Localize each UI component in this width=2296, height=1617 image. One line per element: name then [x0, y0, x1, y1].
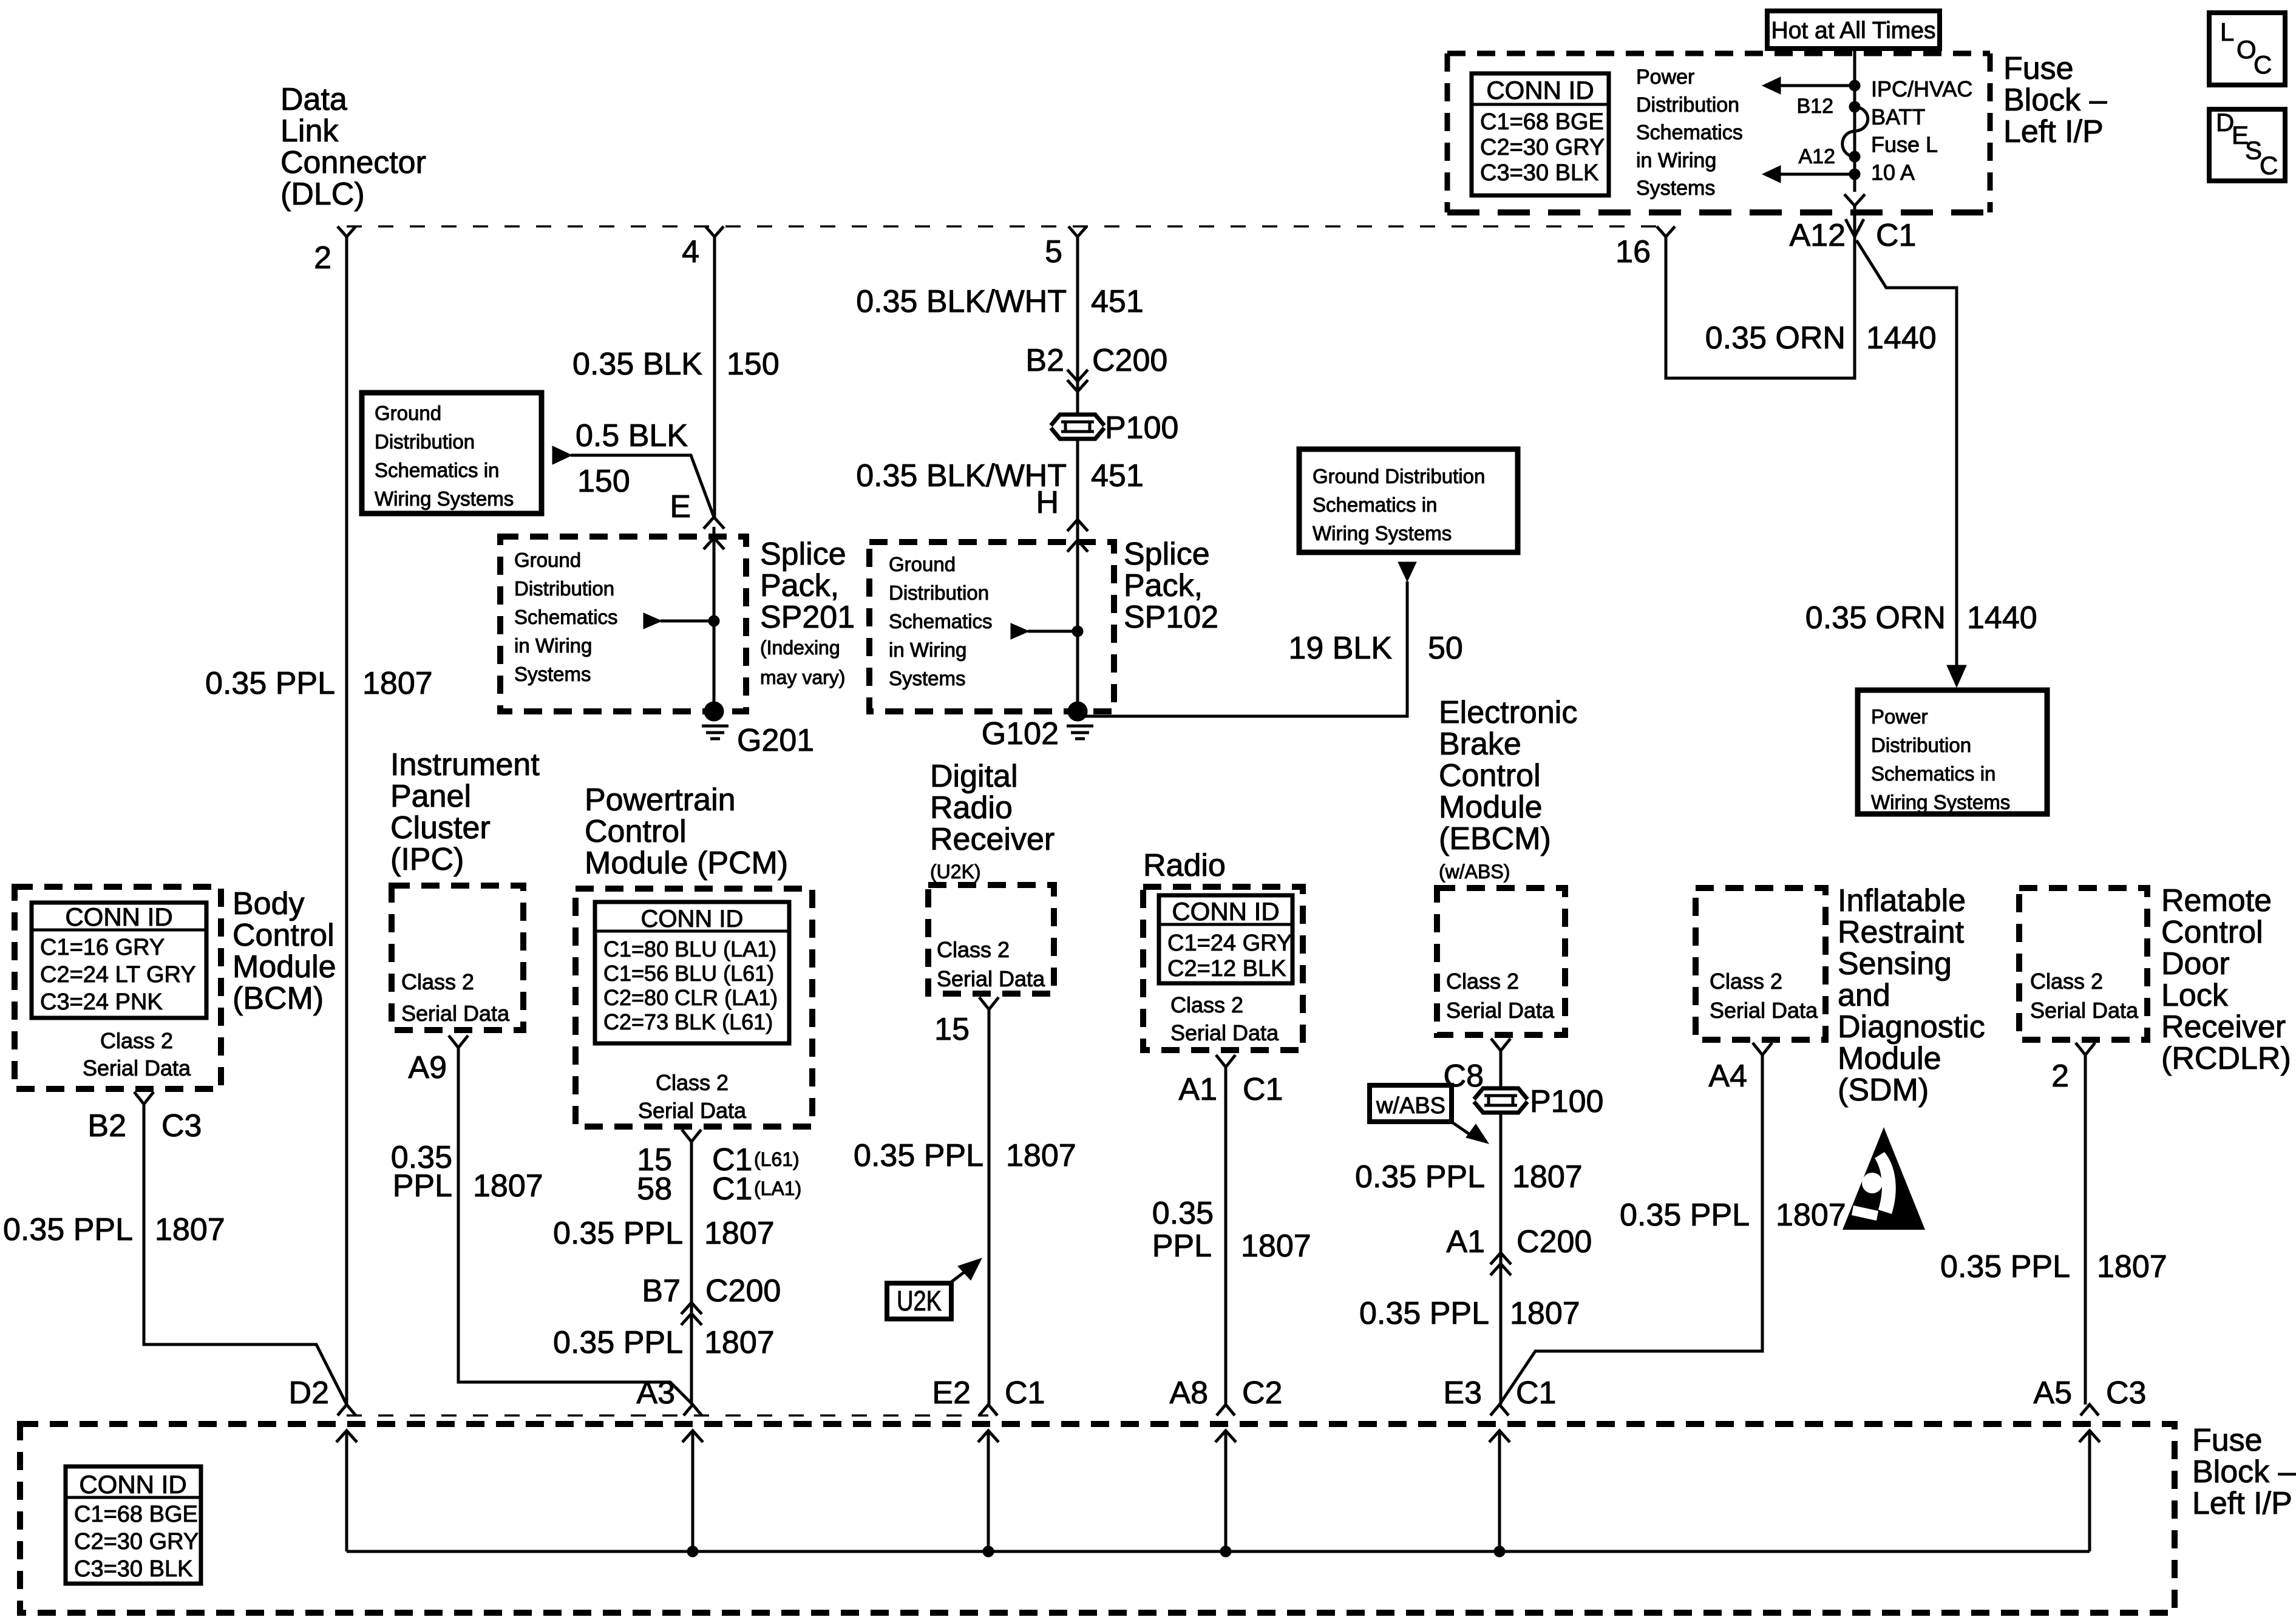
svg-text:G201: G201: [737, 723, 814, 758]
svg-text:Connector: Connector: [280, 145, 426, 180]
svg-text:1807: 1807: [2097, 1249, 2167, 1284]
wire SDM to fuse block E3 (0.35 PPL 1807): [1500, 1055, 1762, 1405]
fuse block internal bus wire: [347, 1550, 2090, 1553]
svg-text:SP102: SP102: [1124, 600, 1218, 635]
svg-text:IPC/HVAC: IPC/HVAC: [1871, 76, 1972, 101]
svg-text:Control: Control: [2161, 915, 2263, 950]
svg-text:Splice: Splice: [1124, 537, 1210, 572]
svg-text:C2=73 BLK (L61): C2=73 BLK (L61): [603, 1009, 773, 1034]
connector A3 (fuse block): [684, 1405, 702, 1415]
ground G102: [1068, 702, 1087, 721]
svg-text:0.35 PPL: 0.35 PPL: [205, 666, 335, 701]
svg-text:Schematics: Schematics: [1636, 121, 1743, 144]
svg-text:CONN ID: CONN ID: [79, 1470, 186, 1499]
svg-text:0.35 ORN: 0.35 ORN: [1705, 320, 1846, 356]
svg-text:CONN ID: CONN ID: [641, 906, 744, 932]
svg-text:451: 451: [1091, 458, 1144, 493]
svg-text:Class 2: Class 2: [937, 937, 1010, 962]
connector pins 15/58 C1 (PCM): [682, 1130, 701, 1142]
module BCM box: [15, 887, 221, 1089]
svg-text:1807: 1807: [704, 1325, 775, 1360]
svg-text:(EBCM): (EBCM): [1439, 821, 1551, 856]
svg-text:1807: 1807: [704, 1216, 775, 1251]
svg-text:Systems: Systems: [514, 663, 591, 685]
svg-text:1807: 1807: [155, 1212, 225, 1247]
open arrow at fuse block exit: [1844, 194, 1865, 206]
svg-text:B12: B12: [1797, 95, 1834, 118]
svg-text:Ground: Ground: [375, 402, 441, 424]
wire BCM to fuse block D2 (0.35 PPL 1807): [144, 1104, 347, 1405]
svg-text:Class 2: Class 2: [2030, 969, 2103, 994]
svg-text:Systems: Systems: [1636, 177, 1715, 200]
svg-text:15: 15: [934, 1012, 970, 1047]
svg-text:0.35 BLK/WHT: 0.35 BLK/WHT: [856, 284, 1067, 319]
svg-text:in Wiring: in Wiring: [1636, 149, 1716, 172]
svg-text:w/ABS: w/ABS: [1376, 1093, 1445, 1119]
svg-text:E3: E3: [1443, 1375, 1482, 1411]
svg-text:may vary): may vary): [760, 666, 845, 688]
svg-text:A1: A1: [1446, 1224, 1485, 1259]
svg-text:A9: A9: [408, 1050, 447, 1085]
svg-text:1807: 1807: [1510, 1296, 1580, 1331]
ground G201: [704, 702, 724, 721]
svg-text:A1: A1: [1178, 1072, 1217, 1107]
svg-text:Schematics: Schematics: [889, 610, 993, 632]
SRS warning triangle icon: [1843, 1127, 1925, 1230]
svg-text:Power: Power: [1636, 66, 1694, 89]
svg-text:C1: C1: [712, 1171, 752, 1207]
svg-text:C2=12 BLK: C2=12 BLK: [1167, 956, 1286, 981]
svg-text:Distribution: Distribution: [514, 577, 614, 600]
svg-text:Distribution: Distribution: [1871, 734, 1971, 756]
svg-text:0.35 PPL: 0.35 PPL: [1359, 1296, 1489, 1331]
svg-text:16: 16: [1615, 234, 1651, 269]
wire 0.35 ORN 1440 branch to power distribution: [1856, 240, 1957, 679]
svg-text:Remote: Remote: [2161, 883, 2272, 918]
svg-text:0.35 PPL: 0.35 PPL: [1355, 1159, 1485, 1195]
CONN ID table (BCM): [32, 903, 206, 1018]
svg-text:Powertrain: Powertrain: [585, 782, 736, 818]
svg-text:C3: C3: [161, 1108, 202, 1144]
svg-text:H: H: [1036, 485, 1059, 520]
svg-text:Class 2: Class 2: [1710, 969, 1782, 994]
svg-text:4: 4: [682, 234, 699, 269]
svg-text:1807: 1807: [473, 1168, 543, 1204]
svg-text:Systems: Systems: [889, 667, 966, 690]
svg-text:150: 150: [577, 464, 630, 499]
svg-text:L: L: [2220, 18, 2234, 46]
DLC pin 5: [1068, 226, 1087, 237]
U2K callout box and arrow: [887, 1283, 951, 1319]
svg-text:P100: P100: [1105, 410, 1178, 446]
svg-text:B2: B2: [1025, 343, 1064, 378]
svg-text:C: C: [2254, 50, 2272, 79]
svg-text:Fuse L: Fuse L: [1871, 132, 1938, 157]
module IPC box: [392, 886, 523, 1030]
fuse block connector thin dashed line: [347, 1414, 988, 1417]
fuse L symbol: [1843, 107, 1868, 157]
svg-text:U2K: U2K: [897, 1285, 942, 1317]
svg-text:58: 58: [637, 1171, 672, 1207]
connector pin A9 (IPC): [449, 1036, 468, 1048]
svg-text:C1: C1: [1516, 1375, 1556, 1411]
connector A8 C2 (fuse block): [1217, 1405, 1235, 1415]
svg-text:Wiring Systems: Wiring Systems: [375, 487, 514, 510]
svg-text:Radio: Radio: [930, 790, 1013, 825]
svg-text:0.35 BLK: 0.35 BLK: [572, 347, 702, 382]
svg-text:Serial Data: Serial Data: [1170, 1020, 1279, 1045]
arrow from ground distribution box: [552, 446, 572, 464]
CONN ID table (Radio): [1159, 895, 1292, 983]
svg-text:CONN ID: CONN ID: [1172, 897, 1279, 926]
wire 0.35 ORN 1440 from fuse A12 to DLC pin 16: [1666, 237, 1855, 378]
svg-text:and: and: [1838, 978, 1890, 1013]
svg-text:Schematics in: Schematics in: [1871, 762, 1995, 785]
svg-text:1440: 1440: [1866, 320, 1937, 356]
Hot at All Times box: [1767, 11, 1940, 49]
wire inside SP201: [713, 527, 716, 711]
inline connector P100: [1050, 415, 1106, 439]
svg-text:Diagnostic: Diagnostic: [1838, 1009, 1985, 1045]
CONN ID table (fuse block top): [1472, 73, 1609, 195]
svg-text:Module: Module: [1439, 790, 1543, 825]
svg-text:C1=24 GRY: C1=24 GRY: [1167, 931, 1292, 956]
svg-text:Restraint: Restraint: [1838, 915, 1965, 950]
arrow A12: [1776, 173, 1855, 176]
svg-text:(L61): (L61): [754, 1148, 800, 1170]
svg-text:C200: C200: [1092, 343, 1167, 378]
svg-text:(LA1): (LA1): [754, 1178, 801, 1199]
svg-text:C2=30 GRY: C2=30 GRY: [74, 1529, 199, 1554]
svg-text:Brake: Brake: [1439, 727, 1521, 762]
svg-text:Block –: Block –: [2003, 83, 2107, 118]
svg-text:Serial Data: Serial Data: [937, 966, 1045, 991]
svg-text:Instrument: Instrument: [390, 747, 540, 782]
svg-text:(BCM): (BCM): [233, 981, 324, 1016]
svg-text:C1: C1: [1243, 1072, 1283, 1107]
ground distribution reference box (upper left): [362, 393, 542, 514]
svg-text:Left I/P: Left I/P: [2192, 1486, 2292, 1521]
svg-text:C2=24 LT GRY: C2=24 LT GRY: [40, 962, 196, 988]
svg-text:Block –: Block –: [2192, 1454, 2296, 1490]
w/ABS callout box and arrow: [1370, 1085, 1452, 1122]
svg-text:(Indexing: (Indexing: [760, 637, 840, 659]
module Digital Radio Receiver box: [928, 885, 1054, 994]
svg-text:Body: Body: [233, 886, 305, 921]
svg-text:Ground: Ground: [514, 549, 581, 571]
connector A5 C3 (fuse block): [2080, 1405, 2099, 1415]
module Radio box: [1143, 887, 1303, 1050]
wire DLC pin 4 to splice SP201 (0.35 BLK 150): [713, 237, 716, 517]
svg-text:E2: E2: [932, 1375, 971, 1411]
fuse block top dashed box: [1447, 53, 1990, 212]
svg-text:2: 2: [314, 240, 331, 276]
svg-text:Schematics in: Schematics in: [1313, 493, 1437, 516]
wire 0.5 BLK 150 to node E: [571, 455, 714, 517]
svg-text:in Wiring: in Wiring: [514, 634, 592, 657]
svg-text:Serial Data: Serial Data: [1446, 998, 1555, 1023]
connector DLC dashed pin line: [347, 225, 1664, 228]
svg-text:C200: C200: [705, 1273, 781, 1309]
svg-text:Sensing: Sensing: [1838, 946, 1952, 981]
svg-text:0.35 PPL: 0.35 PPL: [854, 1138, 983, 1173]
svg-text:Class 2: Class 2: [1170, 992, 1243, 1017]
svg-text:Link: Link: [280, 114, 339, 149]
arrow inside SP201 to splice point: [644, 613, 662, 629]
wire PCM to fuse block A3 (0.35 PPL 1807): [690, 1142, 693, 1405]
svg-text:Radio: Radio: [1143, 848, 1226, 883]
svg-text:Data: Data: [280, 82, 347, 117]
connector pin 2 (RCDLR): [2076, 1043, 2095, 1055]
wire DRR to fuse block E2 (0.35 PPL 1807): [988, 1009, 991, 1405]
svg-text:Control: Control: [1439, 758, 1541, 793]
connector pins A1 C1 (Radio): [1216, 1055, 1235, 1067]
ground distribution reference box (center): [1299, 449, 1518, 552]
svg-text:Digital: Digital: [930, 759, 1018, 794]
svg-text:Lock: Lock: [2161, 978, 2229, 1013]
svg-text:A4: A4: [1708, 1059, 1747, 1094]
svg-text:Control: Control: [233, 918, 335, 953]
svg-text:Class 2: Class 2: [100, 1028, 173, 1053]
svg-text:Distribution: Distribution: [375, 430, 475, 453]
svg-text:1807: 1807: [1241, 1229, 1311, 1264]
svg-text:Module: Module: [1838, 1041, 1941, 1076]
wire DLC pin 5 to splice SP102 (0.35 BLK/WHT 451): [1076, 237, 1079, 711]
svg-text:Distribution: Distribution: [889, 581, 989, 604]
DESC box: [2209, 109, 2285, 181]
svg-text:0.5 BLK: 0.5 BLK: [576, 418, 688, 453]
fuse block feed wire: [1853, 49, 1856, 192]
svg-text:Receiver: Receiver: [930, 822, 1055, 857]
connector D2 (fuse block): [338, 1405, 356, 1415]
svg-text:Ground Distribution: Ground Distribution: [1313, 465, 1485, 487]
DLC pin 16: [1657, 226, 1675, 237]
svg-text:A5: A5: [2033, 1375, 2072, 1411]
connector chevrons at node E: [704, 517, 724, 529]
svg-text:Fuse: Fuse: [2192, 1423, 2263, 1458]
svg-text:A3: A3: [636, 1375, 675, 1411]
svg-text:1807: 1807: [362, 666, 433, 701]
CONN ID table (fuse block bottom): [66, 1466, 201, 1584]
splice pack SP201 box: [500, 537, 746, 711]
svg-text:Pack,: Pack,: [1124, 568, 1203, 603]
svg-text:1807: 1807: [1006, 1138, 1076, 1173]
svg-text:C1=68 BGE: C1=68 BGE: [74, 1502, 198, 1527]
DLC pin 2: [338, 226, 356, 237]
svg-text:Power: Power: [1871, 705, 1928, 728]
svg-text:1440: 1440: [1967, 600, 2037, 636]
svg-text:C: C: [2260, 151, 2278, 180]
svg-text:0.35 ORN: 0.35 ORN: [1805, 600, 1946, 636]
fuse block bottom dashed box: [20, 1424, 2175, 1613]
svg-text:Control: Control: [585, 814, 687, 849]
svg-text:C200: C200: [1517, 1224, 1592, 1259]
connector pin C8 (EBCM): [1491, 1039, 1510, 1051]
svg-text:Serial Data: Serial Data: [401, 1001, 510, 1026]
connector pins B2 C3 (BCM): [134, 1092, 154, 1104]
svg-text:A8: A8: [1169, 1375, 1208, 1411]
svg-text:G102: G102: [982, 716, 1059, 751]
wire DLC pin 2 to fuse block D2 (0.35 PPL 1807): [345, 237, 348, 1405]
connector pin 15 (DRR): [979, 997, 999, 1009]
svg-text:Electronic: Electronic: [1439, 695, 1577, 730]
svg-text:P100: P100: [1530, 1084, 1603, 1119]
svg-text:C1: C1: [1005, 1375, 1045, 1411]
svg-text:C3=30 BLK: C3=30 BLK: [1480, 160, 1598, 186]
svg-text:Ground: Ground: [889, 553, 956, 575]
svg-text:C1: C1: [1876, 218, 1916, 253]
svg-text:Class 2: Class 2: [401, 969, 474, 994]
svg-text:Splice: Splice: [760, 537, 846, 572]
svg-text:Serial Data: Serial Data: [2030, 998, 2139, 1023]
svg-text:D2: D2: [289, 1375, 329, 1411]
svg-text:Distribution: Distribution: [1636, 93, 1739, 117]
svg-text:(U2K): (U2K): [930, 861, 981, 883]
svg-text:Hot at All Times: Hot at All Times: [1771, 18, 1936, 44]
arrow inside SP102 to splice point: [1011, 623, 1029, 639]
svg-text:PPL: PPL: [1152, 1229, 1212, 1264]
CONN ID table (PCM): [595, 902, 789, 1043]
LOC box: [2209, 13, 2285, 85]
svg-text:0.35 PPL: 0.35 PPL: [553, 1216, 683, 1251]
module PCM box: [576, 889, 812, 1127]
svg-text:Panel: Panel: [390, 779, 471, 814]
svg-text:PPL: PPL: [393, 1168, 452, 1204]
svg-text:0.35 PPL: 0.35 PPL: [1620, 1198, 1750, 1233]
svg-text:C2: C2: [1242, 1375, 1282, 1411]
svg-text:(IPC): (IPC): [390, 842, 464, 877]
svg-text:Left I/P: Left I/P: [2003, 114, 2104, 149]
connector chevrons at node H: [1067, 520, 1088, 531]
svg-text:Cluster: Cluster: [390, 810, 491, 846]
module EBCM box: [1437, 888, 1565, 1035]
power distribution reference box: [1858, 690, 2047, 814]
svg-text:Class 2: Class 2: [656, 1070, 729, 1095]
svg-text:A12: A12: [1789, 218, 1846, 253]
arrow B12: [1776, 84, 1855, 87]
svg-text:C1=68 BGE: C1=68 BGE: [1480, 109, 1604, 135]
svg-text:(DLC): (DLC): [280, 177, 365, 212]
connector E3 C1 (fuse block): [1490, 1405, 1509, 1415]
svg-text:0.35 BLK/WHT: 0.35 BLK/WHT: [856, 458, 1067, 493]
splice pack SP102 box: [869, 542, 1114, 711]
svg-text:Serial Data: Serial Data: [1710, 998, 1818, 1023]
svg-text:(RCDLR): (RCDLR): [2161, 1041, 2291, 1076]
connector A12 C1: [1846, 219, 1864, 237]
svg-text:0.35 PPL: 0.35 PPL: [553, 1325, 683, 1360]
svg-text:Module (PCM): Module (PCM): [585, 846, 788, 881]
arrow down from center ground box: [1398, 562, 1416, 581]
svg-text:5: 5: [1045, 234, 1062, 269]
svg-text:C3: C3: [2106, 1375, 2146, 1411]
svg-text:1807: 1807: [1512, 1159, 1583, 1195]
svg-text:50: 50: [1428, 631, 1463, 666]
svg-text:Pack,: Pack,: [760, 568, 839, 603]
svg-text:1807: 1807: [1776, 1198, 1846, 1233]
svg-text:2: 2: [2051, 1059, 2069, 1094]
svg-text:E: E: [670, 489, 691, 524]
svg-text:Serial Data: Serial Data: [638, 1098, 747, 1123]
svg-text:150: 150: [727, 347, 779, 382]
svg-text:(w/ABS): (w/ABS): [1439, 861, 1510, 883]
svg-text:CONN ID: CONN ID: [1486, 76, 1594, 104]
connector pin A4 (SDM): [1753, 1043, 1772, 1055]
svg-text:C2=30 GRY: C2=30 GRY: [1480, 135, 1605, 160]
DLC pin 4: [705, 226, 724, 237]
svg-text:0.35: 0.35: [1152, 1196, 1214, 1231]
wire 19 BLK 50 (G102 to ground reference): [1078, 581, 1407, 716]
svg-text:Schematics: Schematics: [514, 606, 618, 628]
wire RCDLR to fuse block A5 (0.35 PPL 1807): [2084, 1055, 2087, 1405]
svg-text:0.35 PPL: 0.35 PPL: [1940, 1249, 2070, 1284]
svg-text:Fuse: Fuse: [2003, 51, 2074, 86]
wire IPC to fuse block A3 (0.35 PPL 1807): [458, 1048, 693, 1405]
wire Radio to fuse block A8 (0.35 PPL 1807): [1224, 1065, 1228, 1405]
inline connector P100 (EBCM wire): [1473, 1088, 1529, 1113]
svg-text:CONN ID: CONN ID: [65, 903, 172, 931]
svg-text:C2=80 CLR (LA1): C2=80 CLR (LA1): [603, 985, 778, 1010]
module RCDLR box: [2019, 888, 2147, 1040]
svg-text:19 BLK: 19 BLK: [1288, 631, 1392, 666]
svg-text:SP201: SP201: [760, 600, 855, 635]
connector E2 C1 (fuse block): [979, 1405, 997, 1415]
svg-text:Wiring Systems: Wiring Systems: [1871, 791, 2010, 813]
svg-text:Module: Module: [233, 949, 336, 985]
svg-text:451: 451: [1091, 284, 1144, 319]
svg-text:C3=24 PNK: C3=24 PNK: [40, 989, 163, 1015]
svg-text:C1=16 GRY: C1=16 GRY: [40, 935, 165, 960]
module SDM box: [1696, 888, 1826, 1040]
svg-text:Inflatable: Inflatable: [1838, 883, 1966, 918]
svg-text:C1=80 BLU (LA1): C1=80 BLU (LA1): [603, 937, 776, 961]
svg-text:Serial Data: Serial Data: [83, 1056, 191, 1080]
svg-text:Door: Door: [2161, 946, 2230, 981]
svg-text:Class 2: Class 2: [1446, 969, 1519, 994]
svg-text:Receiver: Receiver: [2161, 1009, 2286, 1045]
svg-text:in Wiring: in Wiring: [889, 639, 966, 661]
svg-text:C3=30 BLK: C3=30 BLK: [74, 1556, 192, 1582]
svg-text:B2: B2: [87, 1108, 126, 1144]
wire EBCM to fuse block E3 (0.35 PPL 1807): [1500, 1051, 1503, 1405]
svg-text:(SDM): (SDM): [1838, 1073, 1929, 1108]
svg-text:B7: B7: [642, 1273, 681, 1309]
svg-text:10 A: 10 A: [1871, 160, 1915, 185]
svg-text:Schematics in: Schematics in: [375, 459, 499, 481]
svg-text:A12: A12: [1799, 145, 1836, 168]
svg-text:Wiring Systems: Wiring Systems: [1313, 522, 1452, 544]
svg-text:C1=56 BLU (L61): C1=56 BLU (L61): [603, 961, 774, 986]
svg-text:0.35 PPL: 0.35 PPL: [3, 1212, 133, 1247]
svg-text:BATT: BATT: [1871, 104, 1925, 129]
